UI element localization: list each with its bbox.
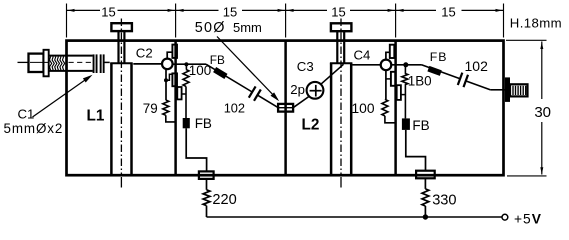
capacitor C1 plates xyxy=(93,54,95,73)
wall 3 (between compartments 3-4) xyxy=(394,41,397,176)
wall 2 (between compartments 2-3) xyxy=(284,41,287,176)
wire R220 to +5V rail xyxy=(206,206,208,217)
wire FB to bottom feedthrough xyxy=(186,128,206,171)
diagonal wire Q2 to output xyxy=(422,65,461,79)
+5V terminal circle xyxy=(502,214,508,220)
svg-text:+5V: +5V xyxy=(514,211,542,226)
input connector flange xyxy=(44,50,49,77)
svg-text:102: 102 xyxy=(465,58,489,74)
svg-text:50Ø: 50Ø xyxy=(195,20,226,36)
svg-text:220: 220 xyxy=(212,192,236,208)
svg-text:FB: FB xyxy=(195,116,212,131)
svg-text:FB: FB xyxy=(210,53,225,67)
transistor Q1 xyxy=(162,59,173,70)
Q1 lower lead with jog xyxy=(165,69,167,100)
wire feedthrough to R330 xyxy=(424,178,426,189)
svg-text:H.18mm: H.18mm xyxy=(510,15,562,30)
inductor L1 resonator rod xyxy=(110,63,113,174)
input connector lead line xyxy=(18,61,29,63)
svg-text:2p: 2p xyxy=(290,82,305,97)
Q1 lower solder tab xyxy=(172,73,177,86)
wire R100 down to FB xyxy=(185,86,187,118)
ferrite bead FB (stage 2 bias) xyxy=(402,118,410,129)
ferrite bead FB on diagonal (stage 1) xyxy=(213,67,227,79)
wire drop to R1B0 xyxy=(404,65,406,74)
resistor R 330 xyxy=(422,189,429,206)
resistor R 100 (stage 1) xyxy=(183,70,189,87)
diagonal wire Q1 to feedthrough xyxy=(206,64,252,92)
wire R100 to wall ground (stage 2) xyxy=(385,116,396,123)
svg-text:30: 30 xyxy=(534,104,551,121)
stub tab to wire (stage 2) xyxy=(401,94,406,96)
svg-text:FB: FB xyxy=(430,50,448,64)
L1 centerline (dash-dot) xyxy=(120,19,122,177)
Q2 collector line xyxy=(391,64,421,66)
Q2 upper solder tab xyxy=(390,45,395,58)
input connector threaded section xyxy=(49,55,67,57)
output connector threaded stub xyxy=(510,84,528,96)
svg-text:1B0: 1B0 xyxy=(408,74,432,89)
output connector flange xyxy=(505,77,510,102)
resistor R 220 xyxy=(203,190,210,206)
svg-text:102: 102 xyxy=(224,101,245,116)
L2 centerline (dash-dot) xyxy=(340,19,342,177)
wall 1 (between compartments 1-2) xyxy=(174,41,177,176)
svg-text:5mm: 5mm xyxy=(233,20,262,35)
dimension line 30 (right) xyxy=(541,42,543,100)
resistor R 79 xyxy=(163,100,169,115)
resistor R 1B0 xyxy=(402,73,408,84)
svg-text:L2: L2 xyxy=(302,117,320,134)
svg-text:C4: C4 xyxy=(354,48,371,63)
trimmer C4 screw stem xyxy=(336,31,338,63)
feedthrough capacitor (wall 2) xyxy=(278,104,293,112)
input connector barrel xyxy=(67,55,93,57)
trimmer C2 screw head xyxy=(111,23,131,31)
svg-text:L1: L1 xyxy=(87,108,105,125)
capacitor 102 plates (stage 2) xyxy=(458,73,463,85)
trimmer C2 screw stem xyxy=(117,31,119,63)
Q1 upper lead xyxy=(167,52,172,58)
wire feedthrough to C3 xyxy=(293,96,309,107)
ferrite bead FB on diagonal (stage 2) xyxy=(427,66,441,76)
Q2 lower lead with jog xyxy=(385,70,387,99)
junction dot (330 to rail) xyxy=(423,214,428,219)
wire L2 to Q2 base xyxy=(352,64,380,66)
trimmer capacitor C3 xyxy=(307,82,324,99)
svg-text:100: 100 xyxy=(352,101,375,116)
stub tab to wire xyxy=(182,93,186,95)
+5V rail xyxy=(207,216,502,218)
dimension 30 extension lines (right) xyxy=(506,39,547,41)
Q1 upper solder tab xyxy=(172,45,177,58)
inductor L2 resonator rod xyxy=(330,63,333,174)
svg-text:15: 15 xyxy=(223,4,237,19)
Q1 collector solder tab (right of wall) xyxy=(177,87,181,99)
Q2 lower solder tab xyxy=(391,72,395,86)
svg-text:C3: C3 xyxy=(297,59,314,74)
ferrite bead FB (stage 1 bias) xyxy=(183,118,190,128)
wire C3 to L2 xyxy=(321,64,344,84)
wire L1 to Q1 base xyxy=(133,63,162,65)
feedthrough capacitor (bottom, stage 1) xyxy=(199,171,214,179)
wire R1B0 down to FB (stage 2) xyxy=(404,85,406,119)
svg-text:C1: C1 xyxy=(18,107,35,122)
input connector barrel dashed centerline xyxy=(69,61,93,63)
junction dot (Q1 collector) xyxy=(184,62,188,66)
wire drop to R100 xyxy=(185,64,187,69)
wire C1 to L1 rod xyxy=(103,61,110,63)
svg-text:15: 15 xyxy=(441,4,455,19)
input connector centerline through body xyxy=(30,61,49,63)
svg-text:C2: C2 xyxy=(136,46,153,61)
wire R330 to +5V rail xyxy=(424,206,426,217)
transistor Q2 xyxy=(381,60,392,71)
svg-text:15: 15 xyxy=(101,4,115,19)
svg-text:5mmØx2: 5mmØx2 xyxy=(4,121,64,136)
trimmer C4 screw head xyxy=(331,23,352,31)
feedthrough capacitor (bottom, stage 2) xyxy=(416,171,435,179)
wire to output connector xyxy=(490,89,505,91)
dimension extension lines (top) xyxy=(66,4,68,38)
resistor R 100 (stage 2 emitter) xyxy=(382,99,388,116)
capacitor 102 plates (stage 1) xyxy=(249,86,256,97)
svg-text:79: 79 xyxy=(143,101,158,116)
wire R79 to wall ground xyxy=(166,115,176,122)
Q1 collector line xyxy=(173,63,206,65)
dimension line 15mm x4 (top) xyxy=(67,9,101,11)
junction dot (Q2 collector) xyxy=(403,62,408,67)
leader arrow 50 dia 5mm xyxy=(217,37,278,100)
Q1 lower lead junction dot xyxy=(164,78,168,82)
wire FB to bottom feedthrough (stage 2) xyxy=(406,130,426,171)
leader arrow C1 xyxy=(33,77,91,118)
input connector body xyxy=(29,54,44,72)
svg-text:FB: FB xyxy=(412,118,429,133)
enclosure box outline xyxy=(67,41,504,176)
Q2 upper lead xyxy=(386,52,390,59)
svg-text:330: 330 xyxy=(432,192,456,208)
svg-text:15: 15 xyxy=(331,4,345,19)
wire feedthrough to R220 xyxy=(206,179,208,190)
Q2 collector solder tab (right of wall) xyxy=(397,85,401,100)
